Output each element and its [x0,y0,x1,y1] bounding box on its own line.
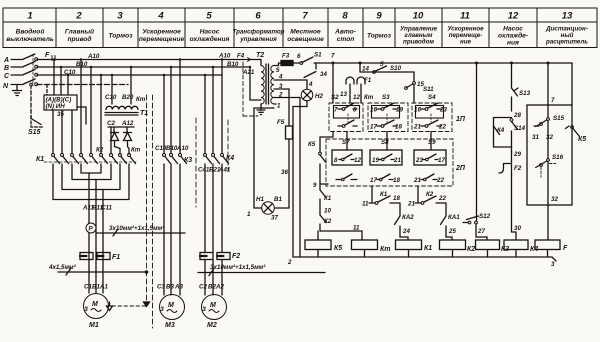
wire drop frame to K1 contact 7 [110,127,112,154]
reversing weave wire 4 [53,164,129,200]
switch S1 [293,57,322,63]
svg-text:3: 3 [279,83,283,90]
remote release unit box [527,105,572,205]
svg-text:К5: К5 [308,141,316,148]
contactor K1 main contact 1 [52,154,55,157]
svg-text:8: 8 [342,11,348,22]
svg-text:К2: К2 [467,246,475,253]
microswitch S9 box [414,150,446,165]
wire drop to S2 group [332,63,334,103]
wire 7 drop col13 [547,62,549,64]
trip coil F [535,240,560,250]
svg-text:1: 1 [27,11,32,22]
svg-text:N: N [3,83,9,90]
fuse F1 pole 1 [80,253,93,260]
svg-text:С3: С3 [157,284,165,291]
cam switch S2 box [329,103,363,132]
svg-text:Авто-: Авто- [334,29,356,36]
wire to S11 [413,72,415,103]
svg-text:Кт: Кт [364,94,374,101]
svg-text:F1: F1 [364,77,372,84]
svg-text:32: 32 [551,196,558,203]
switch F pole B [11,62,35,68]
svg-text:К3: К3 [184,157,192,164]
svg-text:А21: А21 [242,69,255,76]
svg-text:F3: F3 [282,53,290,60]
svg-text:21: 21 [407,201,415,208]
wire 14 branch [360,63,414,72]
motor M3 [160,295,185,320]
wire N to S15 drop [30,85,32,119]
svg-text:21: 21 [413,177,421,184]
svg-text:А10: А10 [87,53,100,60]
section divider dashed 1 [146,95,148,302]
reversing weave wire 1 [81,164,101,173]
wire 11 to Kt coil [320,231,362,240]
wire S16 to trip coil F [547,203,549,240]
svg-text:1: 1 [277,103,281,110]
svg-text:12: 12 [354,157,361,164]
svg-text:5: 5 [380,61,384,68]
junction dots on power buses [53,58,251,76]
svg-text:25: 25 [448,228,456,235]
svg-text:В: В [4,65,9,72]
svg-text:F4: F4 [237,53,245,60]
svg-text:Н1: Н1 [256,196,264,203]
thermal release F2 [499,151,512,176]
svg-text:17: 17 [370,124,377,131]
wire drop bus B to K4 contact 2 [212,67,214,154]
wire IN box output [77,107,86,124]
switch F pole A [11,54,35,60]
svg-text:12: 12 [508,11,519,22]
title block table frame [3,8,597,48]
svg-text:А10: А10 [176,145,189,152]
svg-text:3: 3 [117,11,123,22]
wire drop bus C to K1 contact 6 [100,75,102,154]
svg-text:С2: С2 [199,284,207,291]
svg-text:13: 13 [562,11,573,22]
svg-text:12: 12 [353,94,360,101]
svg-text:А12: А12 [121,120,134,127]
svg-text:А1: А1 [99,284,108,291]
svg-text:К1: К1 [424,245,432,252]
wire S3 to S8 [386,132,388,151]
svg-text:S3: S3 [382,94,390,101]
contactor Kt brake contact 3 [128,154,131,157]
microswitch S8 box [370,150,402,165]
drum switch 2P dashed box [326,139,453,186]
motor M2 feeder wires [205,164,222,295]
svg-text:А10: А10 [218,53,231,60]
svg-text:привод: привод [67,35,91,43]
svg-text:перемещение: перемещение [139,36,185,43]
svg-text:М: М [168,302,174,309]
svg-text:S12: S12 [479,213,491,220]
svg-text:6: 6 [255,11,261,22]
node at S12 feeder [476,62,478,64]
contactor K2 main contact 3 [100,154,103,157]
svg-text:3: 3 [84,306,88,313]
contactor K4 contact 1 [204,154,207,157]
svg-text:4: 4 [278,74,283,81]
svg-text:14: 14 [362,66,369,73]
node at S10 branch [359,62,361,64]
microswitch S7 box [332,150,362,165]
contactor coil Kt [352,240,378,250]
svg-text:10: 10 [413,11,424,22]
svg-text:9: 9 [313,182,317,189]
svg-text:С11: С11 [101,205,112,212]
svg-text:21: 21 [393,157,401,164]
title block column dividers [56,8,537,48]
svg-text:19: 19 [372,157,379,164]
svg-text:управления: управления [239,36,277,43]
tap 2 lead [274,98,300,258]
fuse F3 on control feed [281,61,293,66]
svg-text:19: 19 [396,107,403,114]
tap 1 lead [274,103,276,105]
svg-text:А41: А41 [218,167,231,174]
svg-text:К1: К1 [36,156,44,163]
svg-text:F5: F5 [277,119,285,126]
motor M1 feeder A [88,173,90,293]
svg-text:М1: М1 [89,322,99,329]
svg-text:17: 17 [370,177,377,184]
svg-text:А3: А3 [174,284,183,291]
control bottom bus wire 2-3 [293,257,556,261]
svg-text:F: F [563,245,568,252]
wire to K5 coil [317,231,319,240]
wire S7 feed [346,132,348,151]
contactor K1 main contact 2 [61,154,64,157]
wire S4 to S9 [430,132,432,151]
svg-text:F2: F2 [514,165,522,172]
switch F pole C [11,70,35,76]
svg-text:11: 11 [460,11,470,22]
relay KA2 contact [399,203,401,237]
svg-text:32: 32 [546,134,553,141]
svg-text:3х10мм²+1х1,5мм²: 3х10мм²+1х1,5мм² [210,264,266,271]
ground symbol [13,85,22,96]
svg-text:3: 3 [551,261,555,268]
thermal element Kt [357,77,365,103]
wire drop box to K1 contact 3 [71,110,73,154]
relay K2 contact in chain [320,215,326,223]
transformer T2 primary lead from A10 [258,60,261,66]
contactor K1 main contact 3 [71,154,74,157]
svg-text:17: 17 [438,157,445,164]
svg-text:2: 2 [278,92,283,99]
contactor K3 contact 3 [179,154,182,157]
svg-text:М2: М2 [207,322,217,329]
wire to K3 coil [476,224,487,240]
svg-text:Кт: Кт [131,147,141,154]
svg-text:11: 11 [353,225,360,232]
svg-text:10: 10 [324,208,331,215]
svg-text:35: 35 [57,111,64,118]
svg-text:охлажде-: охлажде- [498,32,528,40]
pushbutton S12 [463,222,468,224]
relay K5 contact [319,152,322,155]
svg-text:В20: В20 [122,94,134,101]
svg-text:7: 7 [331,53,335,60]
svg-text:S8: S8 [381,139,389,146]
svg-text:Тормоз: Тормоз [108,33,133,40]
fuse F5 [286,126,293,139]
svg-text:В10: В10 [76,61,88,68]
svg-text:Насос: Насос [200,29,220,36]
svg-text:М: М [92,301,98,308]
svg-text:31: 31 [532,134,539,141]
svg-text:F1: F1 [112,254,120,261]
title block row divider [3,21,597,23]
diode VD1 [111,133,121,155]
svg-text:А: А [3,57,9,64]
wire to K2 coil [446,237,452,240]
wire drop box to K1 contact 1 [52,110,54,154]
wire drop bus A to K3 contact 3 [179,60,181,154]
svg-text:А2: А2 [215,284,224,291]
S7 lower contact [342,178,345,181]
svg-text:29: 29 [513,151,521,158]
contactor K3 contact 1 [163,154,166,157]
cam switch S3 box [368,103,408,132]
motor M1 feeder B [95,180,97,294]
svg-text:В1: В1 [274,196,282,203]
svg-text:К2: К2 [324,218,332,225]
wire drop bus B to K3 contact 2 [170,67,172,154]
switch S14 [510,119,513,122]
svg-text:(N) ИН: (N) ИН [46,103,66,110]
svg-text:5: 5 [206,11,212,22]
svg-text:К4: К4 [226,155,234,162]
fuse F2 pole 2 [217,253,230,260]
wire bus C10 [37,74,222,76]
svg-text:Н2: Н2 [315,93,323,100]
transformer T1 winding [106,106,138,109]
transformer T1 primary leads [112,67,131,104]
breaker linkage [32,54,34,86]
svg-text:К2: К2 [426,191,434,198]
svg-text:18: 18 [393,195,400,202]
contactor linkage [44,161,136,163]
svg-text:стоп: стоп [337,36,355,43]
transformer T2 primary lead from B10 [250,67,261,100]
svg-text:М3: М3 [165,322,175,329]
svg-text:36: 36 [281,169,288,176]
svg-text:В10: В10 [227,61,239,68]
transformer T2 earth [257,104,265,115]
lamp H1 wire 1 [254,108,274,208]
svg-text:18: 18 [393,177,400,184]
wire drop C to IN box [67,75,69,95]
contactor K2 main contact 2 [90,154,93,157]
signal lamp H2 [301,89,313,101]
svg-text:Насос: Насос [503,26,523,33]
wire drop bus B to K1 contact 5 [90,67,92,154]
relay K5 contact col13 [571,63,573,105]
motor M1 feeder C [102,190,104,294]
svg-text:23: 23 [415,157,423,164]
contactor coil K3 [476,240,500,250]
svg-text:7: 7 [551,97,555,104]
svg-text:S15: S15 [553,115,565,122]
thermal element F1 [346,77,354,103]
svg-text:S9: S9 [428,139,436,146]
tap 4 lead to lamp H2 [274,80,307,89]
svg-text:2: 2 [287,259,292,266]
contactor Kt brake contact 2 [119,154,122,157]
svg-text:22: 22 [438,195,446,202]
dashed cabinet frame at T2 [243,62,258,116]
svg-text:приводом: приводом [403,39,434,46]
thermal probe P [86,223,96,233]
wire drop bus A to K1 contact 4 [80,60,82,154]
svg-text:F: F [45,52,50,59]
switch S13 [511,63,513,88]
motor M3 feeder wires [164,164,180,295]
switch S11 [413,82,416,85]
switch S16 [547,159,550,162]
svg-text:F2: F2 [232,253,240,260]
contactor Kt brake contact 1 [110,154,113,157]
svg-text:S11: S11 [423,86,434,93]
svg-text:Ускоренное: Ускоренное [142,29,181,36]
contactor coil K4 [504,240,528,250]
svg-text:К5: К5 [334,245,342,252]
transformer T2 primary winding [261,66,264,104]
wire drop bus C to K3 contact 1 [163,75,165,154]
svg-text:34: 34 [320,71,327,78]
diode VD2 [124,133,132,155]
svg-text:22: 22 [436,177,444,184]
svg-text:3: 3 [160,306,164,313]
svg-text:С10: С10 [105,94,117,101]
svg-text:Т1: Т1 [140,110,148,117]
svg-text:S13: S13 [519,90,531,97]
svg-text:4х1,5мм²: 4х1,5мм² [48,264,77,271]
relay K1 contact in chain [319,184,321,190]
svg-text:3х10мм²+1х1,5мм²: 3х10мм²+1х1,5мм² [109,225,165,232]
svg-text:Местное: Местное [290,29,321,36]
wire bus B10 [37,66,250,68]
lamp H2 return wire [293,101,307,257]
section divider dashed 4 [227,120,229,170]
wire neutral [37,84,128,86]
contactor coil K2 [440,240,466,250]
wire rail to S12 [476,63,478,221]
svg-text:К1: К1 [380,191,388,198]
svg-text:S1: S1 [314,52,322,59]
svg-text:1: 1 [247,211,251,218]
svg-text:8: 8 [353,107,357,114]
transformer T2 core [266,64,269,104]
svg-text:27: 27 [477,228,485,235]
tap 3 lead to fuse F5 [274,89,289,126]
svg-text:S14: S14 [514,125,526,132]
svg-text:ния: ния [507,40,519,47]
cable run marker 3x10 at M2 [198,269,325,276]
contactor K4 contact 3 [221,154,224,157]
svg-text:выключатель: выключатель [6,36,54,43]
svg-text:К2: К2 [96,147,104,154]
switch F pole N [11,79,35,85]
svg-text:3: 3 [202,306,206,313]
svg-text:М: М [210,302,216,309]
svg-text:9: 9 [376,11,382,22]
svg-text:37: 37 [271,215,278,222]
svg-text:Главный: Главный [65,28,94,36]
motor M1 [84,294,109,319]
relay K4 aux contact bracket [494,118,512,148]
svg-text:S2: S2 [331,94,339,101]
svg-text:8: 8 [334,157,338,164]
svg-text:КА2: КА2 [402,214,414,221]
svg-text:S10: S10 [390,65,402,72]
svg-text:расцепитель: расцепитель [545,39,588,46]
S2 contact lower [338,125,342,127]
switch S1 pole 34 [304,63,316,78]
wire drop box to K1 contact 2 [61,110,63,154]
fuse F1 pole 2 [97,253,110,260]
svg-text:охлаждения: охлаждения [190,35,230,43]
svg-text:Кт: Кт [136,96,146,103]
reversing weave wire 2 [72,164,111,180]
svg-text:23: 23 [439,107,447,114]
wire 36 to lamp H1 [275,139,290,208]
svg-text:освещение: освещение [287,36,324,43]
svg-text:4: 4 [157,11,164,22]
cable run marker 4x1.5 [58,268,147,275]
motor M1 ground [107,302,113,311]
cable run marker 3x10+1x1.5 [96,229,185,236]
voltage relay IN box [44,95,77,110]
svg-text:6: 6 [297,53,301,60]
section divider dashed 3 [195,118,197,207]
contactor coil K1 [396,240,422,250]
svg-text:С10: С10 [64,69,76,76]
svg-text:2: 2 [75,11,82,22]
svg-text:В3: В3 [166,284,174,291]
tap 5 lead [274,63,281,66]
svg-text:1П: 1П [456,116,466,123]
svg-text:Трансформатор: Трансформатор [233,29,285,36]
contactor K3 contact 2 [170,154,173,157]
transformer T1 core [105,113,138,116]
transformer T2 secondary winding [271,66,274,104]
svg-text:13: 13 [340,91,347,98]
svg-text:2П: 2П [455,165,466,172]
svg-text:ние: ние [460,39,472,46]
svg-text:28: 28 [513,112,521,119]
svg-text:Кт: Кт [380,246,391,253]
fuse F2 pole 1 [200,253,213,260]
motor M2 [202,295,227,320]
contactor K4 contact 2 [212,154,215,157]
svg-text:Т2: Т2 [256,52,264,59]
switch S15 [547,118,550,121]
wire drop bus C to K4 contact 1 [204,75,206,154]
wire bus A10 [37,59,258,61]
T1 secondary frame [108,127,134,132]
control rail wire 7 [322,62,572,64]
svg-text:К1: К1 [324,195,332,202]
svg-text:11: 11 [362,201,369,208]
svg-text:S4: S4 [428,94,436,101]
svg-text:С2: С2 [107,120,115,127]
svg-text:18: 18 [395,124,402,131]
